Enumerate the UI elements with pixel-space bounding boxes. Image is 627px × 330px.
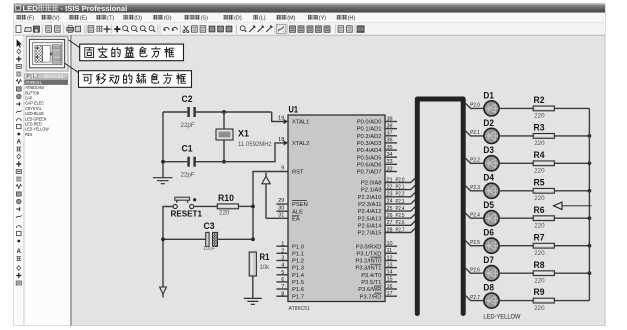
svg-text:P2.5/A13: P2.5/A13 (358, 216, 382, 222)
svg-text:13: 13 (387, 262, 393, 268)
svg-text:P2.2: P2.2 (470, 158, 480, 164)
svg-text:28: 28 (387, 227, 393, 233)
resistor R8 (533, 271, 554, 276)
svg-text:(H): (H) (348, 16, 356, 22)
svg-text:(D): (D) (234, 16, 242, 22)
svg-text:LED-GREEN: LED-GREEN (25, 116, 47, 122)
ground (crystal) (153, 178, 173, 184)
svg-text:P3.6/WR: P3.6/WR (358, 287, 381, 293)
resistor R3 (533, 134, 554, 139)
wire C3 left (163, 238, 206, 240)
svg-text:27: 27 (387, 220, 393, 226)
wire R2 to rail top (554, 107, 589, 109)
svg-text:P2.7: P2.7 (470, 295, 480, 301)
svg-text:(T): (T) (107, 16, 114, 22)
svg-text:P3.5/T1: P3.5/T1 (361, 280, 381, 286)
ground arrow terminal (160, 287, 167, 294)
callout box: fixed blue frame (80, 44, 184, 61)
svg-text:R8: R8 (534, 260, 545, 270)
wire left rail of crystal (162, 112, 164, 177)
svg-text:220: 220 (219, 210, 230, 217)
svg-text:A: A (17, 140, 22, 146)
svg-text:3: 3 (281, 256, 284, 262)
svg-text:21: 21 (387, 177, 393, 183)
fixed blue frame (30, 39, 65, 67)
svg-text:LED-YELLOW: LED-YELLOW (25, 127, 49, 133)
pin stub ALE (276, 210, 288, 212)
svg-text:R4: R4 (534, 150, 545, 160)
svg-text:(L): (L) (259, 16, 266, 22)
led D1 (484, 101, 499, 116)
push button RESET1 (175, 197, 190, 200)
U1 P3 pins (355, 244, 381, 300)
wire bus to D1 (465, 103, 483, 108)
svg-text:P1.0: P1.0 (292, 244, 304, 250)
mouse cursor arrow (562, 205, 592, 207)
node junction rail row 4 (588, 189, 592, 193)
svg-text:AT89C51: AT89C51 (289, 306, 311, 312)
svg-text:(E): (E) (80, 16, 88, 22)
svg-text:XTAL2: XTAL2 (292, 141, 309, 147)
svg-text:35: 35 (387, 145, 393, 151)
svg-text:P2.3: P2.3 (470, 185, 480, 191)
svg-text:D8: D8 (483, 283, 494, 293)
wire to XTAL2 pin 18 (224, 143, 285, 162)
resistor R9 (533, 298, 554, 303)
svg-text:CRYSTAL: CRYSTAL (25, 106, 42, 112)
resistor R1 (249, 252, 256, 276)
svg-text:CAP: CAP (25, 96, 32, 102)
svg-text:37: 37 (387, 131, 393, 137)
wire bus to D2 (465, 131, 483, 136)
svg-text:10: 10 (387, 241, 393, 247)
wire bus to D3 (465, 158, 483, 163)
callout box: movable green frame (79, 71, 192, 88)
svg-text:31: 31 (278, 212, 284, 218)
svg-text:19: 19 (278, 116, 284, 122)
svg-text:(G): (G) (164, 16, 172, 22)
svg-text:P2.4/A12: P2.4/A12 (358, 209, 382, 215)
editing window background (72, 35, 605, 325)
led D5 (484, 211, 499, 226)
led D6 (484, 238, 499, 253)
svg-text:(D): (D) (134, 16, 142, 22)
svg-text:PSEN: PSEN (292, 202, 308, 208)
svg-text:R2: R2 (534, 95, 545, 105)
svg-text:C1: C1 (182, 144, 193, 154)
svg-text:12: 12 (387, 255, 393, 261)
wire D7 to R8 (499, 272, 533, 274)
node junction rail row 7 (588, 271, 592, 275)
svg-text:(V): (V) (52, 16, 60, 22)
svg-text:6: 6 (281, 277, 284, 283)
svg-text:D2: D2 (483, 118, 494, 128)
led D8 (484, 293, 499, 308)
U1 P2 pins (358, 181, 383, 237)
svg-text:EA: EA (292, 216, 300, 222)
svg-text:P2.6/A14: P2.6/A14 (358, 223, 383, 229)
wire D4 to R5 (499, 190, 533, 192)
svg-text:LED: LED (23, 4, 39, 13)
wire D3 to R4 (499, 162, 533, 164)
resistor R10 (217, 204, 238, 209)
resistor R6 (533, 216, 554, 221)
svg-text:(Y): (Y) (319, 16, 327, 22)
svg-text:R6: R6 (534, 205, 545, 215)
svg-text:P2.1: P2.1 (470, 130, 480, 136)
wire R3 to rail (554, 135, 589, 137)
preview chip drawing (35, 46, 42, 63)
svg-text:10k: 10k (260, 265, 271, 271)
svg-text:P2.3: P2.3 (396, 199, 405, 205)
leader line to green-frame callout (65, 63, 79, 73)
svg-text:U1: U1 (289, 104, 299, 114)
svg-text:D5: D5 (483, 200, 494, 210)
pin stub PSEN (276, 203, 288, 205)
wire P2.0 to bus (385, 178, 415, 183)
svg-text:15: 15 (387, 277, 393, 283)
resistor R7 (533, 243, 554, 248)
svg-text:24: 24 (387, 199, 393, 205)
node junction rail row 3 (588, 161, 592, 165)
wire D5 to R6 (499, 217, 533, 219)
svg-text:P2.5: P2.5 (396, 213, 405, 219)
pin arrowhead XTAL2 (284, 140, 288, 145)
svg-text:L: L (33, 74, 36, 80)
svg-text:C3: C3 (204, 221, 215, 231)
svg-text:R1: R1 (260, 252, 270, 262)
svg-text:P0.7/AD7: P0.7/AD7 (357, 170, 382, 176)
svg-text:DEVICES: DEVICES (44, 74, 64, 80)
svg-text:220: 220 (534, 113, 545, 120)
op chip body U1 AT89C51 (288, 115, 385, 302)
wire to XTAL1 pin 19 (272, 112, 285, 122)
menu bar (14, 13, 605, 23)
svg-text:9: 9 (281, 166, 284, 172)
svg-text:R9: R9 (534, 287, 545, 297)
wire right supply rail (588, 108, 590, 300)
svg-text:30: 30 (278, 205, 284, 211)
wire D1 to R2 (499, 107, 533, 109)
power terminal VCC arrow (265, 173, 267, 177)
svg-text:P2.0/A8: P2.0/A8 (361, 181, 382, 187)
svg-text:AT89C51: AT89C51 (25, 80, 42, 86)
svg-text:22pF: 22pF (181, 172, 195, 179)
svg-text:1: 1 (281, 241, 284, 247)
svg-text:X1: X1 (238, 129, 249, 139)
svg-text:39: 39 (387, 116, 393, 122)
svg-text:P2.3/A11: P2.3/A11 (358, 202, 381, 208)
wire P2.3 to bus (385, 199, 415, 204)
svg-text:P2.0: P2.0 (470, 103, 480, 109)
device list (24, 80, 68, 138)
svg-text:11: 11 (387, 248, 393, 254)
svg-text:P2.4: P2.4 (470, 212, 480, 218)
svg-text:R3: R3 (534, 122, 545, 132)
led D7 (484, 266, 499, 281)
svg-text:P0.1/AD1: P0.1/AD1 (357, 127, 382, 133)
svg-text:P2.7/A15: P2.7/A15 (358, 231, 382, 237)
capacitor C2 (163, 111, 187, 113)
svg-text:18: 18 (278, 137, 284, 143)
node junction C1-left (161, 160, 165, 164)
svg-text:5: 5 (281, 270, 284, 276)
led D4 (484, 183, 499, 198)
svg-text:P3.0/RXD: P3.0/RXD (356, 244, 382, 250)
svg-text:36: 36 (387, 138, 393, 144)
svg-text:7: 7 (281, 284, 284, 290)
svg-text:P1.6: P1.6 (292, 287, 304, 293)
svg-text:220: 220 (534, 250, 545, 257)
wire button to R10 (194, 205, 218, 207)
svg-text:P2.7: P2.7 (396, 227, 405, 233)
led D3 (484, 156, 499, 171)
svg-text:P2.1: P2.1 (396, 185, 405, 191)
svg-text:38: 38 (387, 123, 393, 129)
svg-text:C2: C2 (182, 94, 193, 104)
svg-text:R5: R5 (534, 177, 545, 187)
svg-text:P3.7/RD: P3.7/RD (360, 294, 382, 300)
panel/schematic divider (70, 35, 72, 325)
svg-text:P2.6: P2.6 (470, 267, 480, 273)
node junction rail row 6 (588, 244, 592, 248)
DEVICES header (38, 74, 68, 79)
svg-text:P3.1/TXD: P3.1/TXD (356, 251, 381, 257)
wire X1 top (223, 112, 225, 129)
node junction rail row 2 (588, 134, 592, 138)
node junction R10/RST rail (251, 205, 255, 209)
resistor R2 (533, 106, 554, 111)
svg-text:P1.2: P1.2 (292, 259, 304, 265)
svg-text:P0.6/AD6: P0.6/AD6 (357, 162, 382, 168)
svg-text:2: 2 (281, 248, 284, 254)
svg-text:22pF: 22pF (181, 122, 195, 129)
svg-text:(S): (S) (201, 16, 209, 22)
menu items (16, 15, 355, 22)
wire R6 to rail (554, 217, 589, 219)
wire R1 bottom (252, 276, 254, 298)
leader line to blue-frame callout (68, 40, 79, 48)
svg-text:220: 220 (534, 195, 545, 202)
node B junction X1/C1 (222, 160, 226, 164)
svg-text:P2.5: P2.5 (470, 240, 480, 246)
svg-text:P0.5/AD5: P0.5/AD5 (357, 155, 382, 161)
svg-text:23: 23 (387, 192, 393, 198)
left mode-tool column (14, 35, 24, 325)
wire bus to D7 (465, 268, 483, 273)
ground (R1) (244, 298, 262, 304)
svg-text:BUTTON: BUTTON (25, 90, 39, 96)
node junction C3 left (161, 237, 165, 241)
wire bus to D5 (465, 213, 483, 218)
svg-text:P2.2/A10: P2.2/A10 (358, 195, 382, 201)
svg-text:P2.4: P2.4 (396, 206, 405, 212)
capacitor C3 electrolytic (206, 232, 209, 246)
svg-text:32: 32 (387, 166, 393, 172)
svg-text:RES: RES (25, 132, 32, 138)
svg-text:D7: D7 (483, 255, 494, 265)
wire R4 to rail (554, 162, 589, 164)
wire P2.2 to bus (385, 192, 415, 197)
wire P2.4 to bus (385, 207, 415, 212)
svg-text:10uF: 10uF (203, 246, 216, 252)
svg-text:LED-BLUE: LED-BLUE (25, 111, 44, 117)
svg-text:220: 220 (534, 168, 545, 175)
component overview window (26, 36, 68, 71)
svg-text:220: 220 (534, 140, 545, 147)
svg-text:RESET1: RESET1 (171, 210, 203, 219)
svg-text:16: 16 (387, 284, 393, 290)
svg-text:P2.1/A9: P2.1/A9 (361, 188, 382, 194)
U1 left pin names (292, 120, 309, 301)
svg-text:P1.7: P1.7 (292, 294, 304, 300)
svg-text:(M): (M) (287, 16, 295, 22)
svg-text:P2.2: P2.2 (396, 192, 405, 198)
wire EA to VCC (266, 217, 288, 219)
node junction C3/R1 (251, 237, 255, 241)
wire R10 to rail (239, 205, 254, 207)
svg-text:26: 26 (387, 213, 393, 219)
svg-text:P0.4/AD4: P0.4/AD4 (357, 148, 383, 154)
resistor R4 (533, 161, 554, 166)
wire X1 bottom (223, 140, 225, 162)
title bar app icon (15, 5, 20, 10)
node junction rail row 5 (588, 216, 592, 220)
led D2 (484, 128, 499, 143)
svg-text:P1.3: P1.3 (292, 266, 304, 272)
svg-text:LED-RED: LED-RED (25, 122, 42, 128)
svg-text:8: 8 (281, 291, 284, 297)
wire RST net (253, 172, 288, 240)
wire R7 to rail (554, 245, 589, 247)
U1 P1 pin stubs and numbers (276, 241, 288, 297)
movable green frame (33, 43, 62, 65)
svg-text:P2.6: P2.6 (396, 220, 405, 226)
svg-text:D1: D1 (483, 90, 494, 100)
svg-text:29: 29 (278, 198, 284, 204)
wire P2.7 to bus (385, 228, 415, 233)
wire D6 to R7 (499, 245, 533, 247)
svg-text:A: A (17, 249, 22, 255)
toolbar (14, 23, 605, 35)
svg-text:P2.0: P2.0 (396, 177, 405, 183)
wire P2.1 to bus (385, 185, 415, 190)
wire R8 to rail (554, 272, 589, 274)
svg-text:11.0592MHz: 11.0592MHz (238, 142, 272, 148)
title bar (14, 4, 605, 13)
svg-text:RST: RST (292, 170, 304, 176)
svg-text:P3.4/T0: P3.4/T0 (361, 273, 381, 279)
toolbar icons (16, 24, 364, 33)
svg-text:P1.1: P1.1 (292, 251, 304, 257)
wire C3 right (218, 238, 254, 240)
node A junction C2/X1 (222, 110, 226, 114)
wire bus to D4 (465, 186, 483, 191)
svg-text:D4: D4 (483, 173, 494, 183)
svg-text:P0.3/AD3: P0.3/AD3 (357, 141, 382, 147)
svg-text:14: 14 (387, 270, 393, 276)
svg-text:XTAL1: XTAL1 (292, 120, 309, 126)
svg-text:P1.4: P1.4 (292, 273, 305, 279)
P L buttons (25, 74, 31, 79)
object selector panel (24, 35, 70, 325)
svg-text:17: 17 (387, 291, 393, 297)
wire R9 to rail bottom (554, 300, 589, 302)
pin arrowhead XTAL1 (284, 119, 288, 124)
bus P2 loop (417, 99, 463, 314)
svg-text:P3.3/INT1: P3.3/INT1 (355, 266, 381, 272)
svg-text:LED-YELLOW: LED-YELLOW (483, 314, 520, 321)
svg-text:ALE: ALE (292, 209, 303, 215)
wire P2.5 to bus (385, 214, 415, 219)
svg-text:34: 34 (387, 152, 393, 158)
wire D8 to R9 (499, 300, 533, 302)
wire bus to D8 (465, 295, 483, 300)
svg-text:- ISIS Professional: - ISIS Professional (61, 4, 128, 13)
svg-text:33: 33 (387, 159, 393, 165)
wire R5 to rail (554, 190, 589, 192)
svg-text:P3.2/INT0: P3.2/INT0 (355, 259, 381, 265)
svg-text:(F): (F) (27, 16, 34, 22)
svg-text:220: 220 (534, 277, 545, 284)
wire D2 to R3 (499, 135, 533, 137)
svg-text:CAP-ELEC: CAP-ELEC (25, 101, 44, 107)
svg-text:P0.2/AD2: P0.2/AD2 (357, 134, 382, 140)
svg-text:R7: R7 (534, 232, 545, 242)
svg-text:D3: D3 (483, 145, 494, 155)
crystal X1 (216, 129, 233, 140)
svg-text:ATMEGA64: ATMEGA64 (25, 85, 44, 91)
wire bus to D6 (465, 241, 483, 246)
svg-text:220: 220 (534, 223, 545, 230)
svg-text:P1.5: P1.5 (292, 280, 304, 286)
svg-text:4: 4 (281, 263, 284, 269)
svg-text:P0.0/AD0: P0.0/AD0 (357, 120, 382, 126)
wire button left to rail (163, 207, 173, 288)
svg-text:D6: D6 (483, 228, 494, 238)
svg-text:220: 220 (534, 305, 545, 312)
wire P2.6 to bus (385, 221, 415, 226)
svg-text:R10: R10 (218, 193, 234, 203)
svg-text:25: 25 (387, 206, 393, 212)
svg-text:22: 22 (387, 184, 393, 190)
U1 P0 pins (357, 120, 383, 176)
resistor R5 (533, 188, 554, 193)
capacitor C1 (163, 161, 187, 163)
